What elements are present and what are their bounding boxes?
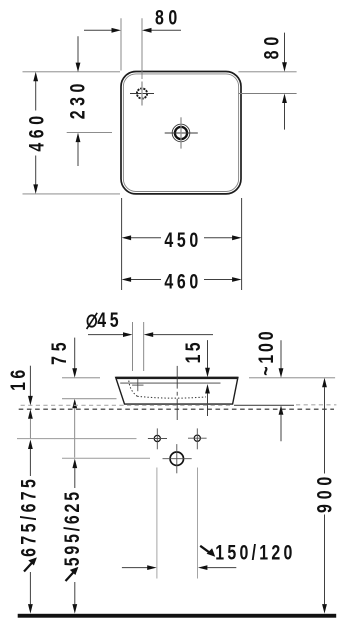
dim 150/120 [122, 567, 148, 569]
extension lines top (80 dim) [120, 18, 122, 70]
basin outer outline (plan) [121, 72, 241, 194]
basin inner rim (elevation) [120, 382, 220, 384]
basin top edge thick [116, 377, 238, 379]
drain ext line E [62, 457, 150, 459]
svg-text:460: 460 [25, 114, 49, 152]
595 slope arrow [66, 572, 74, 581]
16/675 chain shaft [29, 419, 31, 439]
dim o45 ext lines [132, 322, 134, 371]
drain (elevation) [170, 452, 183, 465]
dim ~100 [280, 340, 282, 368]
675 slope arrow [24, 563, 32, 572]
mounting hole left [154, 435, 160, 441]
countertop line B gray dashed [21, 404, 233, 406]
svg-text:900: 900 [313, 475, 337, 513]
svg-text:230: 230 [66, 82, 90, 119]
460 left arrowheads [33, 72, 38, 82]
right 80 dim shafts [284, 33, 286, 63]
drain inner circle (plan) [175, 127, 187, 139]
hidden bowl contour (dotted) [129, 381, 138, 397]
ext lines below basin (450/460) [121, 198, 123, 290]
150/120 slope arrow [200, 546, 209, 552]
countertop top line A (left) [62, 398, 117, 400]
floor [18, 614, 337, 618]
dim 15 [207, 340, 209, 368]
dim 675/675 chain [28, 440, 33, 450]
dim 450 [124, 237, 161, 239]
basin top ext right [249, 377, 335, 379]
faucet crosshair [130, 93, 154, 95]
basin top ext left [62, 377, 100, 379]
svg-text:450: 450 [164, 229, 200, 253]
hole ext lines down [156, 468, 158, 579]
o45 crosshair (elevation) [132, 384, 143, 386]
mounting holes ext line B2 [17, 438, 137, 440]
countertop line C solid right [234, 404, 294, 406]
drain crosshair (plan) [165, 132, 198, 134]
drain centerline (elevation) [176, 366, 178, 389]
mounting hole right [194, 435, 200, 441]
dim 230 shafts [77, 36, 79, 63]
230 arrowheads [76, 63, 81, 73]
dim o45 tails [88, 334, 124, 336]
text o45 [87, 315, 96, 326]
faucet hole (dashed circle) [137, 88, 147, 98]
dim 595/625 chain [72, 459, 77, 469]
right 80 arrowheads [282, 62, 287, 72]
dim 460 left shafts [35, 81, 37, 111]
dim 460 bottom [124, 279, 161, 281]
svg-text:460: 460 [164, 270, 200, 294]
left 460 extension lines [23, 71, 121, 73]
dim 80 top: tails [84, 29, 112, 31]
drain outer circle (plan) [172, 124, 190, 142]
dim 75 [74, 338, 76, 369]
ext line drain height (plan) [67, 132, 112, 134]
basin profile (elevation) [116, 377, 238, 404]
75/595 chain shaft [74, 408, 76, 458]
dim 900 [322, 378, 327, 388]
countertop bottom line D black dashed [19, 408, 334, 410]
dim 16 [29, 366, 31, 396]
arrowheads 80 top [112, 28, 122, 33]
basin inner rim (plan) [123, 74, 238, 192]
right 80 dim extension lines [238, 71, 296, 73]
